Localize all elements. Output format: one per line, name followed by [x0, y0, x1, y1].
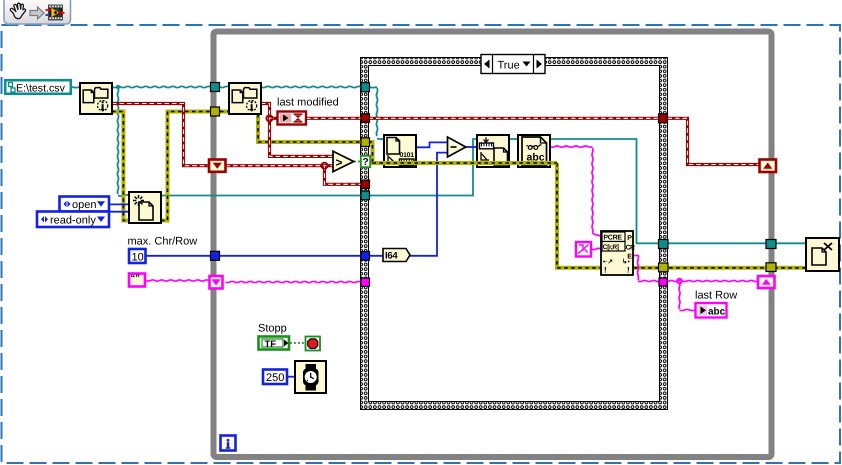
svg-text:TF: TF	[265, 339, 277, 350]
svg-text:250: 250	[266, 372, 284, 384]
svg-text:▪·↗: ▪·↗	[603, 259, 613, 266]
svg-text:“”: “”	[131, 273, 141, 284]
svg-text:True: True	[498, 59, 520, 71]
svg-text:open: open	[72, 199, 96, 211]
svg-text:↳▪: ↳▪	[622, 259, 630, 266]
svg-text:!: !	[627, 266, 630, 275]
svg-text:0101: 0101	[400, 152, 415, 159]
svg-text:E:\test.csv: E:\test.csv	[16, 82, 66, 94]
svg-text:last modified: last modified	[277, 97, 339, 109]
svg-text:last Row: last Row	[695, 290, 737, 302]
svg-text:I64: I64	[385, 251, 398, 262]
svg-text:C[r,R]: C[r,R]	[603, 244, 619, 251]
svg-text:?: ?	[362, 157, 368, 168]
svg-text:!: !	[604, 266, 607, 275]
svg-text:abc: abc	[708, 307, 726, 318]
svg-text:max. Chr/Row: max. Chr/Row	[128, 236, 198, 248]
svg-text:10: 10	[132, 252, 144, 264]
svg-text:PCRE: PCRE	[603, 235, 622, 242]
svg-text:CR: CR	[626, 245, 635, 252]
svg-text:P: P	[627, 235, 632, 242]
svg-text:read-only: read-only	[50, 214, 96, 226]
svg-text:>: >	[336, 156, 343, 170]
svg-text:Stopp: Stopp	[258, 323, 287, 335]
